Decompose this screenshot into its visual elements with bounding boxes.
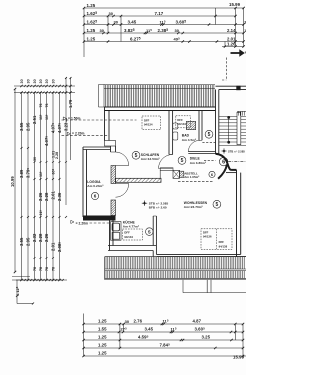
svg-text:×: × bbox=[245, 50, 246, 55]
svg-text:DFF: DFF bbox=[124, 231, 130, 235]
svg-text:30: 30 bbox=[33, 157, 37, 161]
curved entry wall bbox=[216, 154, 237, 170]
svg-text:2.36: 2.36 bbox=[57, 192, 62, 201]
wohnen bottom wall bbox=[156, 253, 240, 255]
svg-text:1.25: 1.25 bbox=[98, 343, 107, 348]
skylight DFF box schlafen bbox=[142, 116, 161, 130]
door loggia-schlafen bbox=[116, 165, 129, 167]
lower storey outline bbox=[182, 280, 184, 293]
svg-text:94/136: 94/136 bbox=[203, 235, 212, 239]
svg-text:15.99: 15.99 bbox=[229, 2, 241, 7]
left chain bottom 78 labels bbox=[34, 257, 36, 259]
bottom chain rows bbox=[84, 323, 243, 325]
svg-text:1.79: 1.79 bbox=[68, 99, 73, 108]
dashed apartment line bbox=[178, 180, 214, 182]
svg-text:DFF: DFF bbox=[144, 118, 150, 122]
top chain row 6 (right stub) bbox=[222, 46, 244, 48]
svg-text:Am=12.53m²: Am=12.53m² bbox=[141, 157, 160, 161]
skylight DFF boxes wohnen bbox=[201, 229, 232, 250]
stair handrail bbox=[237, 112, 241, 144]
svg-text:BFB +/- 2.60: BFB +/- 2.60 bbox=[149, 205, 167, 209]
top chain verticals bbox=[83, 8, 85, 57]
svg-text:DFF: DFF bbox=[203, 230, 209, 234]
svg-text:1: 1 bbox=[244, 29, 246, 33]
circle near stairs top bbox=[205, 130, 213, 138]
svg-text:LOGGIA: LOGGIA bbox=[87, 180, 101, 184]
kitchen unit bbox=[111, 222, 121, 241]
level marker at stairs bbox=[222, 150, 227, 152]
bottom chain verticals bbox=[83, 314, 85, 357]
skylight DFF box kueche bbox=[123, 229, 143, 240]
svg-text:3: 3 bbox=[244, 21, 246, 25]
svg-text:30: 30 bbox=[175, 28, 180, 33]
svg-text:5: 5 bbox=[215, 202, 218, 208]
svg-text:30: 30 bbox=[100, 28, 105, 33]
svg-text:STB +/- 2.585: STB +/- 2.585 bbox=[228, 149, 245, 153]
top eaves hatched strip bbox=[99, 84, 216, 86]
left exterior wall upper bbox=[104, 107, 106, 141]
svg-text:4.87: 4.87 bbox=[193, 319, 202, 324]
skylight DFF box bad bbox=[176, 116, 191, 128]
svg-text:5: 5 bbox=[135, 153, 138, 159]
svg-text:Am 3.80m²: Am 3.80m² bbox=[190, 161, 206, 165]
top chain row 1 bbox=[84, 7, 244, 9]
svg-text:2.01: 2.01 bbox=[51, 191, 56, 200]
svg-text:10.99: 10.99 bbox=[10, 176, 15, 187]
svg-text:30: 30 bbox=[33, 79, 37, 83]
stair block top wall bbox=[216, 85, 247, 87]
svg-text:Am 4.77m²: Am 4.77m² bbox=[123, 224, 139, 228]
svg-text:2.95: 2.95 bbox=[26, 122, 31, 131]
svg-text:Am=23.70m²: Am=23.70m² bbox=[184, 205, 203, 209]
svg-text:30: 30 bbox=[20, 79, 24, 83]
svg-text:1.25: 1.25 bbox=[87, 28, 96, 33]
door loggia-wohnen bbox=[116, 183, 129, 185]
bottom eaves hatched strip bbox=[105, 256, 157, 258]
diele label bbox=[178, 157, 186, 165]
svg-text:2.28: 2.28 bbox=[55, 152, 59, 159]
bottom chain ticks bbox=[82, 323, 84, 325]
left chain mid ticks bbox=[20, 147, 22, 149]
stair landing edge bbox=[219, 144, 246, 146]
svg-text:78: 78 bbox=[33, 267, 37, 271]
svg-text:78: 78 bbox=[52, 267, 56, 271]
svg-text:7.17: 7.17 bbox=[155, 11, 164, 16]
svg-text:5: 5 bbox=[148, 229, 151, 235]
2.20m line lower left bbox=[90, 222, 110, 224]
svg-text:94/134: 94/134 bbox=[177, 122, 186, 126]
bath fixtures bbox=[173, 123, 178, 129]
svg-text:94/134: 94/134 bbox=[124, 235, 133, 239]
newel black square bbox=[236, 86, 240, 90]
top chain row 3 bbox=[84, 24, 244, 26]
svg-text:DFF: DFF bbox=[177, 118, 183, 122]
kueche bottom wall bbox=[108, 245, 156, 247]
level marker wohnen bbox=[142, 202, 147, 204]
top chain row 5 bbox=[84, 41, 244, 43]
dashes near stairs bbox=[204, 159, 216, 161]
loggia top wall bbox=[83, 146, 111, 148]
circle entry big bbox=[219, 157, 227, 165]
svg-text:30: 30 bbox=[114, 20, 119, 25]
svg-text:30: 30 bbox=[45, 79, 49, 83]
left chain top tick rows bbox=[14, 85, 75, 87]
svg-text:30: 30 bbox=[27, 79, 31, 83]
svg-text:2.76: 2.76 bbox=[134, 319, 143, 324]
dashed line right of bad bbox=[202, 142, 215, 144]
overall vertical 10.99 bbox=[14, 89, 16, 272]
loggia-room wall pier (hatched) bbox=[111, 166, 116, 184]
svg-text:1.25: 1.25 bbox=[98, 335, 107, 340]
svg-text:30: 30 bbox=[39, 79, 43, 83]
kueche right wall bbox=[152, 216, 154, 246]
svg-text:78: 78 bbox=[45, 267, 49, 271]
svg-text:5: 5 bbox=[181, 158, 184, 164]
schlafen label bbox=[132, 151, 140, 159]
svg-text:94/138: 94/138 bbox=[219, 244, 228, 248]
circle entry small bbox=[209, 171, 215, 177]
svg-text:Am 6.24m²: Am 6.24m² bbox=[87, 184, 103, 188]
door bad bbox=[188, 140, 200, 151]
svg-text:3.23: 3.23 bbox=[64, 122, 69, 131]
svg-text:15.99: 15.99 bbox=[233, 355, 245, 360]
svg-text:= 2.20m: = 2.20m bbox=[72, 132, 85, 136]
svg-text:30: 30 bbox=[125, 319, 130, 324]
svg-text:Am 4.5m²: Am 4.5m² bbox=[182, 138, 196, 142]
railing top right bbox=[237, 110, 246, 112]
door schlafen bbox=[159, 154, 173, 168]
svg-text:6: 6 bbox=[94, 194, 97, 199]
wall schlafen/bad bbox=[168, 111, 170, 155]
svg-text:= 2.20m: = 2.20m bbox=[76, 221, 89, 225]
entry wall top lines bbox=[230, 169, 236, 171]
svg-text:3.45: 3.45 bbox=[128, 19, 137, 24]
1.50m line bbox=[62, 119, 137, 121]
svg-text:30: 30 bbox=[109, 11, 114, 16]
svg-text:1.26: 1.26 bbox=[227, 42, 236, 47]
entrance arrow bbox=[231, 52, 241, 54]
svg-text:= 1.50m: = 1.50m bbox=[68, 116, 81, 120]
wall bad right bbox=[198, 111, 200, 141]
svg-text:76: 76 bbox=[39, 103, 43, 107]
svg-text:3.25: 3.25 bbox=[202, 335, 211, 340]
door threshold X-box bbox=[173, 170, 180, 178]
left chain bottom tick rows bbox=[24, 279, 26, 281]
top chain row 2 bbox=[84, 15, 236, 17]
svg-text:6: 6 bbox=[222, 160, 225, 166]
svg-text:DFF: DFF bbox=[219, 240, 225, 244]
left chain vertical lines bbox=[21, 93, 23, 281]
svg-text:2.32: 2.32 bbox=[32, 233, 37, 242]
left chain bottom hook 1.12 bbox=[16, 280, 18, 296]
svg-text:5: 5 bbox=[208, 132, 211, 138]
svg-text:1.55: 1.55 bbox=[98, 327, 107, 332]
svg-text:2.01: 2.01 bbox=[227, 36, 236, 41]
svg-text:1.25: 1.25 bbox=[98, 351, 107, 356]
wall schlafen/wohnen bbox=[116, 178, 162, 182]
loggia-room wall lower stub (hatched) bbox=[111, 200, 116, 216]
stairwell left wall bbox=[215, 90, 217, 155]
svg-text:94/134: 94/134 bbox=[144, 123, 153, 127]
wall bad/diele bottom (landing) bbox=[188, 151, 215, 153]
2.20m line upper bbox=[62, 134, 110, 136]
left lower wall below loggia bbox=[109, 221, 111, 251]
abstell niche walls bbox=[160, 168, 173, 171]
svg-text:2.14: 2.14 bbox=[227, 28, 236, 33]
right exterior wall bbox=[236, 170, 238, 257]
svg-text:1.25: 1.25 bbox=[87, 3, 96, 8]
post below strip bbox=[206, 280, 208, 293]
walking line with dots bbox=[228, 118, 230, 143]
svg-text:1.25: 1.25 bbox=[98, 319, 107, 324]
svg-text:3.55: 3.55 bbox=[19, 122, 24, 131]
svg-text:2.01: 2.01 bbox=[51, 242, 56, 251]
svg-text:2.26: 2.26 bbox=[38, 192, 43, 201]
svg-text:2.95: 2.95 bbox=[26, 237, 31, 246]
wall stub right of X-box (hatched) bbox=[180, 171, 184, 177]
svg-text:2.28: 2.28 bbox=[44, 192, 49, 201]
step between kueche and wohnen bottom walls bbox=[152, 251, 154, 257]
svg-text:2.26: 2.26 bbox=[44, 233, 49, 242]
svg-text:30: 30 bbox=[52, 79, 56, 83]
chimney block bbox=[186, 121, 195, 129]
svg-text:76: 76 bbox=[45, 103, 49, 107]
svg-text:3.55: 3.55 bbox=[19, 237, 24, 246]
dash-dot line right of entry circle bbox=[228, 161, 246, 163]
top chain row 4 bbox=[84, 32, 244, 34]
loggia bottom wall (solid) bbox=[83, 216, 116, 221]
stair treads bbox=[219, 116, 246, 142]
svg-text:78: 78 bbox=[39, 267, 43, 271]
svg-text:2.28: 2.28 bbox=[38, 233, 43, 242]
svg-text:2.51: 2.51 bbox=[32, 115, 37, 124]
top exterior wall bbox=[105, 106, 216, 108]
svg-text:3.89: 3.89 bbox=[19, 169, 24, 178]
svg-text:Am 1.05m²: Am 1.05m² bbox=[184, 175, 199, 179]
svg-text:1.25: 1.25 bbox=[87, 36, 96, 41]
svg-text:3.45: 3.45 bbox=[145, 327, 154, 332]
top chain ticks bbox=[83, 7, 85, 9]
wall step left bbox=[105, 141, 116, 147]
loggia left wall bbox=[82, 147, 84, 217]
access dashed line bbox=[225, 58, 227, 81]
left room wall (loggia side) upper stub bbox=[110, 146, 112, 152]
